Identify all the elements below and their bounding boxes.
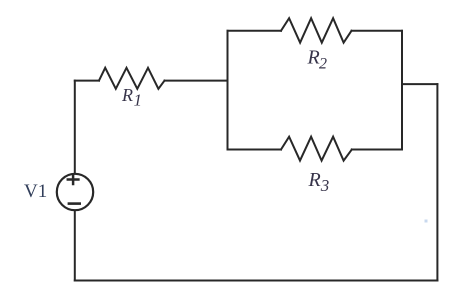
svg-text:R3: R3 — [308, 169, 330, 195]
wire — [436, 84, 438, 280]
resistor R3 — [281, 137, 352, 161]
svg-text:R1: R1 — [121, 85, 142, 110]
resistor R1 — [99, 68, 165, 89]
wire — [74, 81, 76, 173]
wire — [401, 31, 403, 150]
noise speck — [425, 220, 428, 223]
wire — [227, 31, 229, 150]
wire — [228, 149, 282, 151]
wire — [352, 149, 402, 151]
svg-text:R2: R2 — [307, 47, 328, 73]
wire — [165, 80, 228, 82]
wire — [228, 30, 282, 32]
wire — [402, 83, 437, 85]
resistor R2 — [281, 18, 352, 43]
wire — [352, 30, 403, 32]
svg-text:V1: V1 — [24, 181, 47, 202]
wire — [74, 211, 76, 281]
voltage source V1 — [57, 174, 93, 210]
wire — [75, 280, 438, 282]
wire — [75, 80, 99, 82]
